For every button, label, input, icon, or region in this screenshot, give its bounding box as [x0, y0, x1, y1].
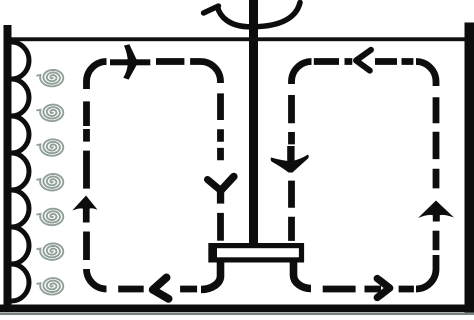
wire left loop right edge dashes — [217, 93, 224, 160]
tank left wall — [4, 25, 12, 312]
arrow right-loop right side (points up) — [418, 201, 454, 222]
tank right wall — [465, 23, 474, 313]
wire right loop left edge upper dashes — [288, 95, 295, 144]
impeller blade (rect, white fill black border) — [211, 246, 302, 260]
arrow left-loop bottom (points left chevron) — [153, 278, 169, 299]
arrow right-loop top (points left chevron) — [356, 50, 371, 71]
cooling coil (7 semicircle bumps on left wall) — [12, 42, 30, 301]
stirrer shaft — [249, 0, 258, 246]
wire left loop left edge lower dash — [83, 232, 90, 261]
liquid surface line — [10, 37, 466, 41]
wire left loop left edge dashes — [83, 101, 90, 189]
wire left loop top-right corner — [201, 62, 221, 84]
rotation arrow barb — [204, 6, 219, 13]
wire left loop under-impeller connector — [201, 261, 221, 290]
arrow left-loop top (points right) — [110, 44, 150, 79]
wire left loop bottom-left corner — [87, 269, 107, 289]
wire right loop top-right corner — [416, 62, 436, 87]
wire right loop top-left corner — [292, 62, 312, 85]
wire left loop right edge lower dashes — [217, 213, 224, 241]
arrow left-loop near shaft (points down) — [208, 177, 234, 204]
wire right loop top edge dashes — [314, 58, 414, 65]
arrow right-loop bottom (points right chevron) — [377, 279, 389, 298]
wire right loop right edge dash below arrow — [433, 231, 440, 251]
wire left loop bottom edge dashes — [118, 286, 197, 293]
wire right loop under-impeller connector — [294, 261, 312, 289]
wire right loop left edge lower dashes — [288, 181, 295, 241]
bottom gray strip — [0, 313, 474, 315]
wire right loop bottom edge dashes — [323, 286, 414, 293]
arrow right-loop near shaft (points down) — [271, 146, 309, 173]
wire left loop top-left corner — [87, 62, 107, 90]
tank bottom wall — [0, 305, 474, 313]
arrow left-loop left side (points up) — [72, 196, 97, 223]
wire left loop top edge dashes — [156, 58, 201, 65]
bubble spirals column (gas dispersion) — [37, 70, 63, 295]
wire right loop bottom-right corner — [416, 255, 436, 289]
wire right loop right edge dashes — [433, 97, 440, 188]
rotation arrow arc at shaft top — [218, 3, 301, 27]
